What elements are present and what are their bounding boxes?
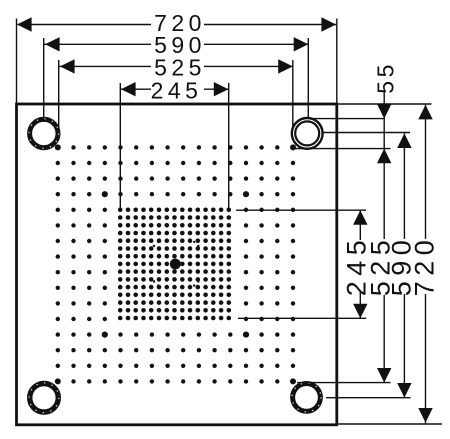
reference line: top edge extended right bbox=[338, 103, 431, 105]
svg-text:245: 245 bbox=[151, 77, 203, 103]
dimension 720 (top width): label bbox=[154, 10, 206, 36]
center nozzle (large dot) bbox=[170, 259, 181, 270]
dimension 55 (hole diameter): label bbox=[373, 61, 399, 94]
dimension 590 (hole centers width): label bbox=[154, 32, 206, 58]
reference line: top-right hole top tangent bbox=[313, 118, 385, 120]
mounting hole top-left bbox=[29, 119, 59, 149]
dimension 245 (central spray zone width): extension lines bbox=[120, 83, 228, 210]
dimension 525 (vertical, hole inner tangents): bottom arrow bbox=[377, 368, 391, 383]
reference line: central zone top edge extended right bbox=[236, 209, 366, 211]
dimension 525 (vertical): label bbox=[366, 235, 396, 297]
dimension 720 (vertical, full height): line and arrows bbox=[418, 105, 432, 423]
reference line: top-right hole center bbox=[324, 132, 411, 134]
svg-text:720: 720 bbox=[410, 235, 440, 297]
dimension 525 (hole inner tangents width): label bbox=[154, 54, 206, 80]
diagonal nozzle pair SE bbox=[193, 280, 200, 287]
dimension 720 (top width): extension lines bbox=[17, 19, 337, 105]
dimension 245 (vertical): label bbox=[342, 235, 372, 297]
dense spray nozzle dot grid (central 245x245 zone) bbox=[118, 208, 231, 321]
reference line: bottom-right hole top tangent bbox=[297, 382, 391, 384]
panel outline (720x720 square face) bbox=[17, 104, 337, 425]
dimension 590 (hole centers width): dimension line with arrows bbox=[44, 37, 309, 51]
svg-text:525: 525 bbox=[154, 54, 206, 80]
mounting hole top-right bbox=[292, 118, 323, 149]
dimension 590 (hole centers width): extension lines bbox=[44, 38, 309, 122]
svg-text:245: 245 bbox=[342, 235, 372, 297]
reference line: bottom-right hole center bbox=[326, 397, 411, 399]
diagonal nozzle pair NW bbox=[153, 241, 160, 248]
diagonal nozzle pair SW bbox=[153, 280, 160, 287]
dimension 525 (hole inner tangents width): extension lines bbox=[59, 60, 293, 128]
dimension 525 (hole inner tangents width): dimension line with arrows bbox=[59, 59, 293, 73]
dimension 245 (vertical, central spray zone): line and arrows bbox=[353, 210, 367, 318]
dimension 245 (central spray zone width): label bbox=[151, 77, 203, 103]
sparse spray nozzle dot grid (outer zone) bbox=[55, 144, 296, 384]
diagonal nozzle pair NE bbox=[193, 241, 200, 248]
reference line: central zone bottom edge extended right bbox=[238, 317, 366, 319]
reference line: top-right hole bottom tangent bbox=[295, 148, 391, 150]
mounting hole bottom-left bbox=[29, 383, 59, 413]
mounting hole bottom-right bbox=[292, 383, 321, 412]
reference line: bottom edge extended right bbox=[338, 423, 442, 425]
dimension 590 (vertical): label bbox=[387, 235, 417, 297]
dimension 720 (vertical): label bbox=[410, 235, 440, 297]
dimension 55 (hole diameter): arrows and line bbox=[377, 91, 391, 383]
dimension 245 (central spray zone width): dimension line with arrows bbox=[120, 82, 228, 96]
dimension 590 (vertical, hole centers): line and arrows bbox=[397, 133, 411, 397]
dimension 720 (top width): dimension line with arrows bbox=[17, 17, 336, 31]
svg-text:55: 55 bbox=[373, 61, 399, 94]
